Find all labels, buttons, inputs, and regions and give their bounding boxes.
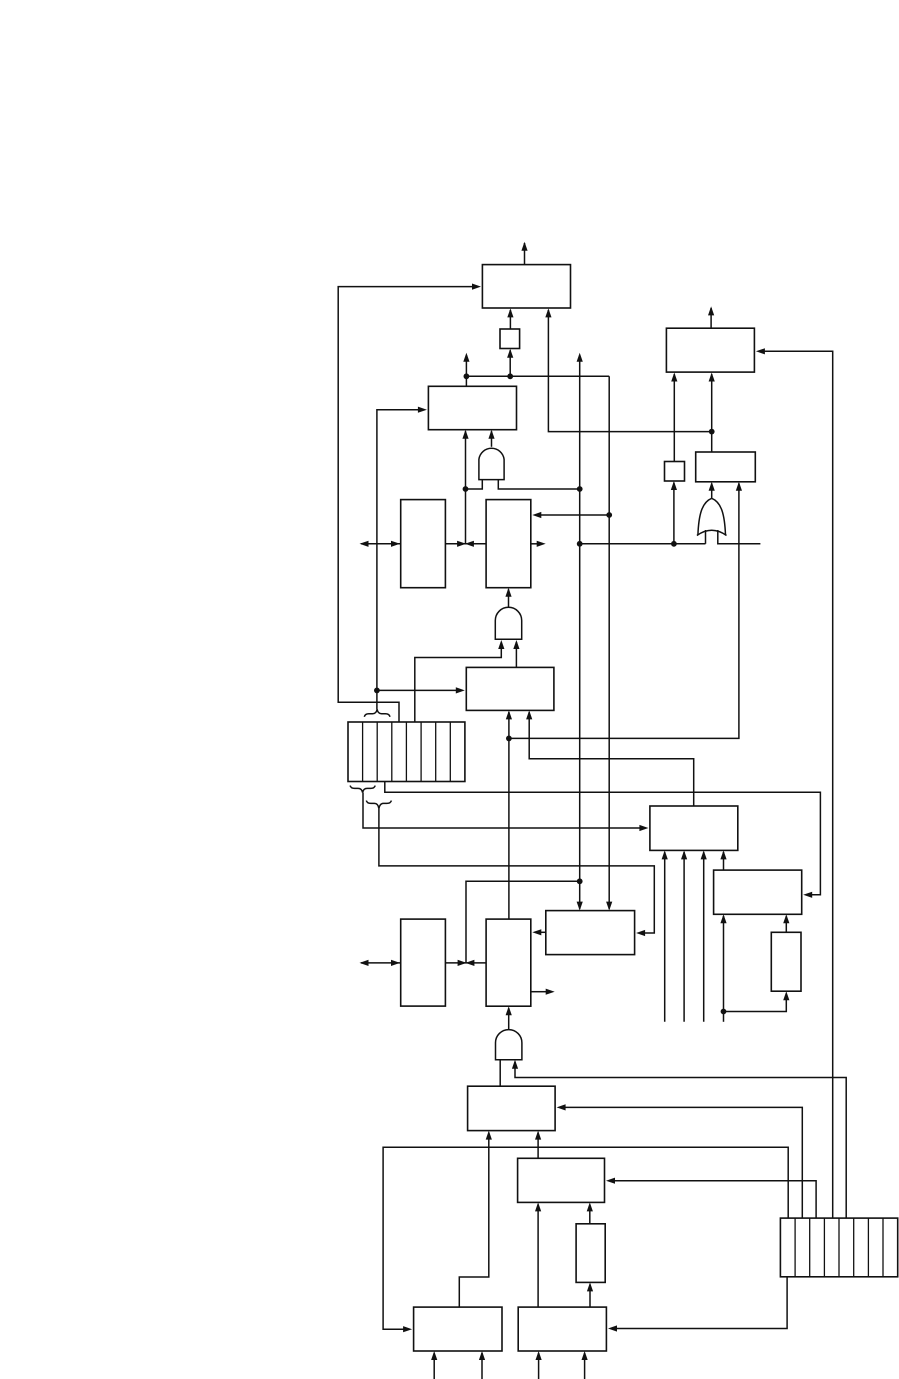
shift register SR2 (striped, bottom right) <box>780 1218 897 1277</box>
register J (top right) <box>666 328 754 372</box>
wire A output up <box>521 242 527 265</box>
wire N right output <box>531 989 555 995</box>
register S (small tall) <box>771 932 801 991</box>
wire bottom input 4 to V <box>582 1351 588 1379</box>
wire M left bidirectional port <box>360 960 401 966</box>
register M (tall, left) <box>401 919 446 1006</box>
wire SR2 cell1 to U left input (long) <box>383 1147 788 1332</box>
wire B to A <box>507 308 513 329</box>
register C <box>428 386 516 429</box>
register U (bottom left) <box>414 1307 502 1351</box>
wire SR1 bottom to Q right input (W_a) <box>385 782 821 898</box>
latch B (small box) <box>500 329 520 349</box>
wire bus V2 vertical <box>577 353 583 911</box>
brace1 under SR1 <box>350 786 375 793</box>
register W (small tall) <box>576 1224 605 1283</box>
wire N output up to I and G <box>506 482 742 919</box>
wire SR2 cell2 to T right input <box>557 1104 803 1218</box>
wire AND G2 output to E <box>505 588 511 608</box>
AND gate G1 <box>479 448 504 479</box>
register N (tall) <box>486 919 531 1006</box>
wire AND G1 output to C <box>488 430 494 447</box>
wire loose input 4 to Q bottom with junction <box>720 914 726 1022</box>
wire D-E port with junction <box>445 541 486 547</box>
brace top of SR1 <box>364 709 390 717</box>
wire W output to X bottom-right input <box>587 1202 593 1223</box>
AND gate G3 <box>495 1030 521 1060</box>
wire E right output <box>531 541 546 547</box>
wire S output to Q bottom <box>783 914 789 932</box>
wire F output to J <box>671 373 677 462</box>
wire SR2 cell3 to X right input <box>606 1178 816 1219</box>
register P <box>546 911 635 955</box>
wire C output bus: free arrow, to B, corner down <box>463 349 609 387</box>
wire J output up <box>708 306 714 328</box>
wire C-bus down right side (V3) to E and P <box>532 376 612 910</box>
wire AND G1 inputs <box>463 480 579 492</box>
wire V output to W bottom input <box>587 1282 593 1307</box>
register V (bottom) <box>518 1307 606 1351</box>
wire AND G3 left input from T <box>499 1060 501 1086</box>
AND gate G2 <box>495 607 521 639</box>
register Q <box>714 870 802 914</box>
register X <box>518 1158 605 1202</box>
wire D left bidirectional port <box>360 541 401 547</box>
wire AND G3 output to N <box>506 1006 512 1029</box>
wire SR2 bottom to V right input <box>608 1277 787 1332</box>
register A (top) <box>482 265 570 308</box>
wire OR output to G <box>709 482 715 499</box>
wire F bottom input <box>671 481 677 544</box>
register D (tall, left) <box>401 500 446 588</box>
wire M-N port with junction <box>445 960 486 966</box>
wire OR right input stub <box>718 530 761 544</box>
wire G output to J and A inputs <box>545 308 715 452</box>
wire P to N input <box>532 929 546 935</box>
wire loose input 3 to K bottom <box>701 850 707 1021</box>
wire SR1 brace-top bus to C and I inputs <box>374 407 465 710</box>
register T <box>468 1086 555 1130</box>
wire AND G3 right input from SR2 cell5 <box>512 1060 846 1218</box>
register K <box>650 806 738 850</box>
wire brace2 to P right input <box>379 809 654 937</box>
wire SR1 cell4 to A input (long left feedback) <box>338 284 481 723</box>
wire loose input 1 to K bottom <box>662 850 668 1021</box>
register E (tall) <box>486 500 531 588</box>
wire X output to T bottom-right input <box>535 1131 541 1159</box>
wire bottom input 1 to U <box>431 1351 437 1379</box>
brace2 under SR1 <box>366 801 391 809</box>
wire V2 branch to M-N port <box>466 881 580 963</box>
wire Q output to K bottom input <box>720 850 726 870</box>
wire bottom input 3 to V <box>536 1351 542 1379</box>
latch F (small box) <box>665 462 685 482</box>
wire junction to S bottom input <box>724 991 790 1011</box>
wire V1: C bottom input from D/E port <box>462 430 468 544</box>
register I <box>466 667 554 710</box>
OR gate G4 <box>697 498 727 535</box>
wire bottom input 2 to U <box>479 1351 485 1379</box>
register G <box>696 452 756 482</box>
shift register SR1 (striped) <box>348 722 465 782</box>
wire V output to X bottom-left input <box>535 1202 541 1307</box>
wire J right input from SR2 cell4 (long feedback) <box>756 348 833 1218</box>
wire I output to AND G2 right input <box>513 640 519 667</box>
wire brace1 to K left input <box>363 793 648 832</box>
wire V2 branch to F and OR left input <box>580 530 706 547</box>
wire U output to T bottom-left input <box>459 1131 492 1308</box>
wire loose input 2 to K bottom <box>681 850 687 1021</box>
wire SR1 cell5 to AND G2 left input <box>415 640 505 722</box>
wire K top to I bottom-right input <box>526 710 694 806</box>
